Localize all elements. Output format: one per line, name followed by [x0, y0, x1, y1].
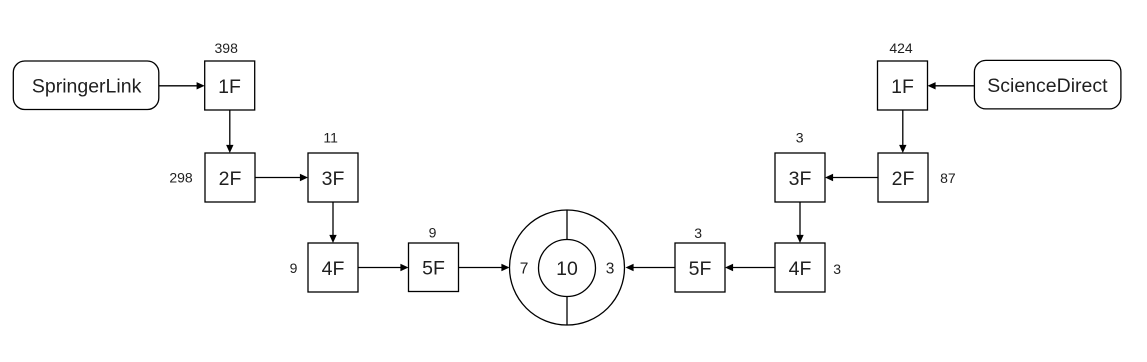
arrowhead into 1F right — [928, 82, 936, 89]
wire 2F right to 3F right — [832, 177, 878, 179]
wire 2F left to 3F left — [255, 177, 301, 179]
arrowhead into 4F right — [796, 235, 803, 243]
wire 1F left to 2F left — [229, 110, 231, 146]
box 2F right — [878, 153, 928, 202]
spoke bottom — [566, 297, 568, 326]
svg-text:3: 3 — [833, 261, 841, 277]
svg-text:3F: 3F — [322, 168, 345, 190]
svg-text:7: 7 — [520, 261, 529, 278]
svg-text:10: 10 — [556, 258, 578, 280]
wire 4F right to 5F right — [732, 267, 775, 269]
arrowhead into 4F left — [329, 235, 336, 243]
svg-text:5F: 5F — [422, 258, 445, 280]
box 4F right — [775, 243, 825, 292]
box 5F right — [675, 243, 725, 292]
wire 3F left to 4F left — [332, 202, 334, 236]
box 3F right — [775, 153, 825, 202]
terminator SpringerLink — [13, 61, 159, 110]
arrowhead into 2F right — [899, 145, 906, 153]
wire ScienceDirect to 1F right — [935, 85, 975, 87]
arrowhead into 1F left — [197, 82, 205, 89]
svg-text:2F: 2F — [892, 168, 915, 190]
terminator ScienceDirect — [974, 60, 1121, 109]
box 5F left — [409, 243, 459, 292]
svg-text:398: 398 — [215, 40, 239, 56]
svg-text:11: 11 — [323, 129, 338, 145]
arrowhead into union circle left — [501, 264, 509, 271]
union outer circle — [510, 210, 625, 325]
wire 4F left to 5F left — [358, 267, 401, 269]
svg-text:4F: 4F — [789, 258, 812, 280]
wire 5F left to union circle — [459, 267, 503, 269]
box 1F left — [205, 61, 255, 110]
svg-text:298: 298 — [169, 169, 193, 185]
svg-text:3: 3 — [606, 261, 615, 278]
wire SpringerLink to 1F left — [159, 85, 198, 87]
box 1F right — [878, 61, 928, 110]
svg-text:424: 424 — [889, 40, 913, 56]
wire 3F right to 4F right — [799, 202, 801, 236]
svg-text:4F: 4F — [322, 258, 345, 280]
box 3F left — [308, 153, 358, 202]
arrowhead into 5F right — [725, 264, 733, 271]
box 4F left — [308, 243, 358, 292]
svg-text:3: 3 — [796, 129, 804, 145]
spoke top — [566, 210, 568, 240]
arrowhead into 3F right — [825, 174, 833, 181]
svg-text:9: 9 — [290, 260, 298, 276]
svg-text:2F: 2F — [219, 168, 242, 190]
svg-text:1F: 1F — [218, 76, 241, 98]
arrowhead into 5F left — [400, 264, 408, 271]
svg-text:87: 87 — [940, 170, 956, 186]
svg-text:SpringerLink: SpringerLink — [32, 76, 142, 98]
box 2F left — [205, 153, 255, 202]
arrowhead into 3F left — [300, 174, 308, 181]
wire 5F right to union circle — [633, 267, 675, 269]
arrowhead into union circle right — [626, 264, 634, 271]
union inner circle — [539, 240, 596, 297]
arrowhead into 2F left — [226, 145, 233, 153]
svg-text:9: 9 — [429, 225, 437, 241]
svg-text:ScienceDirect: ScienceDirect — [987, 75, 1108, 97]
wire 1F right to 2F right — [902, 110, 904, 146]
svg-text:1F: 1F — [891, 76, 914, 98]
svg-text:5F: 5F — [689, 258, 712, 280]
svg-text:3: 3 — [694, 225, 702, 241]
svg-text:3F: 3F — [789, 168, 812, 190]
